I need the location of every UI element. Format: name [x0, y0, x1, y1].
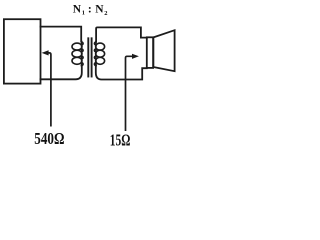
540 ohm impedance pointer line [48, 53, 51, 126]
inductor L1 primary coil [72, 42, 83, 66]
wire primary top [41, 27, 82, 42]
540 ohm arrowhead pointing left [42, 50, 49, 55]
svg-text::: : [88, 3, 92, 15]
svg-text:N: N [95, 4, 104, 16]
transformer core line 1 [87, 38, 89, 76]
svg-text:540Ω: 540Ω [34, 129, 64, 148]
speaker LS1 horn cone [153, 30, 174, 71]
speaker LS1 driver rectangle [147, 37, 153, 68]
inductor L2 secondary coil [94, 42, 104, 66]
svg-text:1: 1 [82, 10, 85, 17]
source box (540 ohm source) [4, 19, 41, 83]
svg-text:15Ω: 15Ω [110, 131, 131, 149]
label N1 [73, 3, 108, 16]
wire secondary bottom [96, 63, 147, 79]
wire secondary top [96, 27, 147, 41]
15 ohm impedance pointer line [126, 56, 133, 130]
15 ohm arrowhead pointing right [132, 54, 139, 59]
transformer core line 2 [91, 38, 93, 76]
svg-text:2: 2 [104, 10, 107, 17]
svg-text:N: N [73, 4, 82, 16]
wire primary bottom [41, 63, 82, 79]
